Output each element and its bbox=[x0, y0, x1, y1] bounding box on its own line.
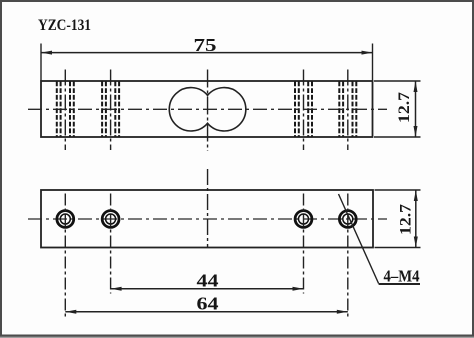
binocular vertical centerline bbox=[207, 70, 209, 152]
dim 44 line bbox=[111, 288, 304, 290]
hole B2 (M4 tapped) bbox=[102, 211, 119, 228]
bottom view vertical centerline bbox=[207, 169, 209, 247]
hole B4 axis / extension to dim 64 bbox=[347, 194, 349, 317]
dim 12.7 (bottom view) arrows bbox=[414, 190, 418, 201]
svg-text:12.7: 12.7 bbox=[398, 204, 415, 235]
hole T3 axis bbox=[303, 70, 305, 151]
leader line 4-M4 bbox=[339, 194, 379, 284]
dim 12.7 (top view) line bbox=[415, 81, 417, 137]
dim 64 line bbox=[65, 311, 348, 313]
dim 44 arrows bbox=[111, 287, 122, 291]
hole B2 axis / extension to dim 44 bbox=[110, 194, 112, 294]
svg-text:YZC-131: YZC-131 bbox=[38, 17, 91, 34]
hole B1 (M4 tapped) bbox=[57, 211, 74, 228]
hole B3 axis / extension to dim 44 bbox=[303, 194, 305, 294]
svg-text:4–M4: 4–M4 bbox=[384, 267, 420, 286]
dim 12.7 (bottom view) extension lines bbox=[375, 189, 421, 191]
svg-text:44: 44 bbox=[197, 271, 219, 291]
threaded hole T1 (side view, hidden lines) bbox=[57, 82, 74, 137]
top view outline bbox=[41, 81, 373, 137]
dim 12.7 (top view) extension lines bbox=[374, 80, 421, 82]
dim 12.7 (bottom view) line bbox=[415, 190, 417, 248]
dim 75 line bbox=[41, 52, 373, 54]
bottom view outline bbox=[41, 190, 373, 248]
dim 64 arrows bbox=[65, 310, 76, 314]
threaded hole T4 (side view, hidden lines) bbox=[339, 82, 356, 137]
svg-text:75: 75 bbox=[194, 35, 217, 55]
threaded hole T2 (side view, hidden lines) bbox=[102, 82, 119, 137]
hole T2 axis bbox=[110, 70, 112, 151]
hole B3 (M4 tapped) bbox=[295, 211, 312, 228]
top view horizontal centerline bbox=[28, 108, 387, 110]
hole T4 axis bbox=[347, 70, 349, 151]
dim 75 extension lines bbox=[40, 44, 42, 81]
svg-text:12.7: 12.7 bbox=[396, 92, 413, 123]
svg-text:64: 64 bbox=[197, 293, 219, 313]
hole B4 (M4 tapped) bbox=[339, 211, 356, 228]
dim 12.7 (top view) arrows bbox=[414, 81, 418, 92]
dim 75 arrows bbox=[41, 51, 52, 55]
hole T1 axis bbox=[64, 70, 66, 151]
threaded hole T3 (side view, hidden lines) bbox=[295, 82, 312, 137]
bottom view horizontal centerline bbox=[28, 218, 387, 220]
hole B1 axis / extension to dim 64 bbox=[64, 194, 66, 317]
binocular flexure cutout bbox=[169, 88, 246, 131]
